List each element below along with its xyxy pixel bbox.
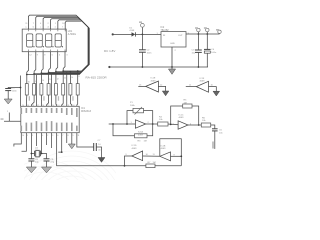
- wire col 5 top: [55, 69, 57, 83]
- svg-text:RA-815 220OR: RA-815 220OR: [86, 76, 108, 80]
- gate IC1C triangle: [178, 121, 188, 129]
- svg-text:11: 11: [67, 105, 69, 107]
- wire common: [66, 72, 68, 107]
- ground under IC1E: [162, 91, 169, 96]
- gate D pin texts: [146, 154, 156, 156]
- capacitor C5 output: [211, 125, 218, 149]
- gate IC1D triangle: [132, 151, 143, 161]
- wire digit pin 3: [41, 52, 43, 71]
- wire XTAL2: [41, 133, 43, 154]
- svg-text:IC1D: IC1D: [132, 145, 137, 147]
- unused gate IC1F pins: [189, 85, 214, 87]
- svg-text:GND: GND: [170, 43, 175, 45]
- ground symbol on rail: [168, 67, 175, 74]
- svg-text:11: 11: [78, 135, 80, 137]
- segment resistor bank: [25, 84, 79, 95]
- wire regulator output rail: [186, 33, 220, 35]
- node bus J3: [41, 72, 43, 74]
- svg-text:4: 4: [42, 135, 43, 137]
- stage pin number texts: [126, 122, 193, 156]
- svg-text:16: 16: [28, 82, 30, 84]
- wire seg bus 4: [49, 19, 89, 73]
- ground under C9: [41, 167, 51, 173]
- VCC wire to IC: [20, 76, 22, 107]
- svg-text:100n: 100n: [12, 90, 18, 92]
- node amp2 in: [170, 124, 172, 126]
- ground under C1: [4, 99, 12, 104]
- svg-text:IC1F: IC1F: [200, 78, 205, 80]
- node bus J1: [26, 74, 28, 76]
- node rail j C3: [198, 66, 200, 68]
- node xtal2: [41, 153, 43, 155]
- node amp1 in: [112, 123, 114, 125]
- wire digit pin 5: [56, 52, 58, 69]
- svg-text:100n: 100n: [147, 52, 153, 54]
- svg-text:9: 9: [79, 76, 80, 78]
- node gate B input: [180, 155, 182, 157]
- capacitor C9 label: [50, 159, 54, 164]
- wire seg bus 2: [34, 16, 89, 74]
- ground rail: [109, 66, 208, 68]
- pin number texts bottom: [22, 135, 79, 137]
- wire seg bus 5: [56, 20, 88, 72]
- wire seg bus 1: [27, 15, 90, 74]
- wire XTAL1 cap branch: [30, 154, 32, 159]
- node input plus terminal: [112, 33, 114, 35]
- svg-text:DC 1.8V: DC 1.8V: [104, 49, 115, 53]
- resistor R6: [201, 123, 210, 127]
- svg-text:10: 10: [71, 77, 73, 79]
- resistor R13: [40, 84, 43, 95]
- node bus J5: [55, 71, 57, 73]
- gate IC1B triangle: [160, 152, 171, 161]
- wire common: [35, 75, 37, 106]
- svg-text:18: 18: [32, 105, 34, 107]
- regulator IC2 78L05: [161, 32, 186, 47]
- wires display bottom pins: [27, 52, 65, 72]
- svg-text:4069: 4069: [138, 134, 144, 136]
- node xtal1: [31, 153, 33, 155]
- wire rcol 7: [70, 95, 71, 106]
- wire pin to cap chain: [77, 133, 94, 147]
- unused gate IC1F: [186, 81, 217, 92]
- resistor R4: [158, 122, 168, 126]
- supply flag Vin: [141, 23, 145, 34]
- unused gate IC1E: [138, 81, 165, 92]
- svg-text:4069: 4069: [179, 117, 185, 119]
- wire seg bus 3: [41, 18, 88, 74]
- resistor R15: [54, 84, 57, 95]
- wire col 6 top: [62, 69, 64, 84]
- svg-text:13: 13: [57, 105, 59, 107]
- node bus J2: [33, 73, 35, 75]
- svg-text:13: 13: [49, 79, 51, 81]
- node minus terminal: [108, 66, 110, 68]
- resistor R11: [25, 84, 28, 95]
- unused gate IC1E label: [151, 78, 157, 83]
- capacitor C1 label: [12, 87, 18, 92]
- display bottom pin numbers: [29, 55, 68, 57]
- diode D1 label: [129, 27, 135, 32]
- svg-text:IC1C: IC1C: [179, 114, 184, 116]
- wire crystal plates: [0, 0, 1, 1]
- potentiometer P1 label: [130, 102, 136, 107]
- wires resistor bank to IC pins: [26, 72, 77, 107]
- ground under IC1F: [213, 91, 220, 96]
- svg-text:9: 9: [73, 135, 74, 137]
- svg-text:15: 15: [35, 81, 37, 83]
- wire col 7 top: [69, 71, 71, 84]
- display pin stubs: [28, 29, 65, 52]
- wire col 1 top: [26, 72, 28, 84]
- resistor R17: [69, 84, 72, 95]
- gate B feedback loop wire: [160, 139, 182, 166]
- node pd junction: [61, 151, 63, 153]
- wire pin stub f: [51, 133, 53, 148]
- crystal Q1 label: [35, 148, 41, 152]
- resistor R18: [76, 84, 79, 95]
- net label out vertical: [212, 142, 214, 149]
- svg-text:14: 14: [52, 105, 54, 107]
- capacitor C7: [94, 143, 102, 158]
- resistor R14: [47, 84, 50, 95]
- wire input to diode: [113, 33, 132, 35]
- wire pin stub h: [66, 133, 68, 143]
- wire signal rail from pin: [57, 133, 125, 166]
- svg-text:4069: 4069: [151, 80, 157, 82]
- IC1 top pin numbers: [22, 105, 75, 107]
- svg-text:1: 1: [27, 135, 28, 137]
- node Vin junction: [142, 34, 144, 36]
- wire gate D output: [125, 156, 132, 166]
- svg-text:16: 16: [42, 105, 44, 107]
- gate IC1D label: [132, 145, 138, 150]
- supply flag +5V b: [206, 28, 209, 34]
- supply flag +5V c: [218, 30, 221, 34]
- svg-text:20: 20: [22, 105, 24, 107]
- ground under C7: [98, 158, 105, 163]
- wire to ground arrow: [71, 133, 73, 144]
- node bus J7: [70, 71, 72, 73]
- wire col 8 top: [77, 71, 79, 84]
- capacitor C4 electrolytic: [204, 34, 211, 67]
- wire amp1 out: [146, 123, 158, 125]
- crystal Q1: [35, 151, 41, 157]
- svg-text:1M: 1M: [144, 140, 147, 142]
- svg-text:7: 7: [62, 135, 63, 137]
- IC1 microcontroller 90S2313: [21, 106, 79, 132]
- ground under C8: [26, 167, 36, 173]
- capacitor C4 label: [211, 49, 217, 54]
- wire digit pin 6: [63, 52, 65, 69]
- wire rail R7 right: [155, 165, 181, 167]
- node rail j gnd: [171, 66, 173, 68]
- node bus J6: [62, 70, 64, 72]
- capacitor C9: [44, 159, 50, 167]
- svg-text:78L05Z: 78L05Z: [161, 29, 170, 32]
- svg-text:10: 10: [73, 105, 75, 107]
- capacitor C1: [5, 88, 20, 100]
- svg-text:d: d: [48, 26, 49, 28]
- wire rcol 5: [55, 95, 58, 106]
- resistor R4 label: [159, 116, 163, 121]
- svg-text:17: 17: [37, 105, 39, 107]
- svg-text:12: 12: [57, 78, 59, 80]
- gate IC1A label: [138, 131, 144, 137]
- IC1 bottom pin wires: [14, 133, 125, 166]
- svg-text:90S2313: 90S2313: [81, 110, 92, 113]
- resistor R16: [62, 84, 65, 95]
- capacitor C3 label: [192, 50, 196, 55]
- svg-text:IC1E: IC1E: [151, 78, 156, 80]
- svg-text:A-564G: A-564G: [68, 33, 76, 36]
- node rail j C2: [142, 66, 144, 68]
- wire pin stub e: [46, 133, 48, 145]
- svg-text:10: 10: [22, 135, 24, 137]
- reset stub wire: [4, 113, 21, 122]
- resistor R5 feedback: [171, 104, 199, 125]
- wire diode to regulator: [135, 33, 161, 35]
- wire R4 to amp2: [168, 123, 178, 126]
- wire col 4 top: [48, 70, 50, 84]
- resistor bank pin texts: [28, 76, 80, 84]
- svg-text:12: 12: [62, 105, 64, 107]
- capacitor C8 label: [35, 159, 39, 164]
- wire gate D to gate B: [143, 155, 160, 157]
- gate IC1B label: [161, 145, 167, 150]
- unused gate IC1F label: [200, 78, 206, 83]
- wire XTAL2 cap branch: [41, 154, 47, 159]
- svg-text:4069: 4069: [132, 148, 138, 150]
- wire digit pin 2: [34, 52, 36, 72]
- ground under IC pin: [68, 144, 75, 149]
- svg-text:2: 2: [47, 135, 48, 137]
- supply flag +5V a: [197, 28, 200, 34]
- wire digit pin 4: [49, 52, 51, 70]
- supply flag texts: [139, 21, 219, 30]
- wire pin tick g: [58, 133, 61, 152]
- svg-text:8: 8: [67, 135, 68, 137]
- unused gate IC1E pins: [139, 84, 163, 86]
- svg-text:4MHz: 4MHz: [35, 150, 41, 152]
- wire XTAL1: [31, 133, 34, 154]
- resistor R6 label: [202, 117, 206, 122]
- watermark pattern: [0, 151, 127, 240]
- resistor R7 on rail: [146, 164, 155, 168]
- display top pin numbers: [25, 23, 65, 28]
- node VCC-C1: [20, 87, 22, 89]
- svg-text:15: 15: [47, 105, 49, 107]
- wire rcol 2: [31, 95, 34, 106]
- wire regulator gnd stem: [171, 47, 173, 67]
- resistor R7 label: [148, 162, 156, 164]
- wire bus from display top pins to segment resistors: [27, 15, 90, 74]
- svg-text:1M: 1M: [184, 102, 187, 104]
- node rail to gate D: [124, 165, 126, 167]
- capacitor C7 label: [98, 140, 102, 152]
- node out j2: [206, 33, 208, 35]
- capacitor C3: [195, 34, 202, 67]
- amp stage 1 input wire: [109, 123, 136, 125]
- node amp2 out: [198, 124, 200, 126]
- resistor R3 feedback bottom: [113, 124, 153, 138]
- svg-text:4069: 4069: [200, 81, 206, 83]
- wire pin stub d: [35, 133, 37, 146]
- svg-text:4148: 4148: [129, 30, 135, 32]
- svg-text:3: 3: [52, 135, 53, 137]
- svg-text:6: 6: [57, 135, 58, 137]
- resistor R12: [33, 84, 36, 95]
- wire pin GND left: [14, 133, 21, 147]
- node out j1: [198, 33, 200, 35]
- wire rail left of R7: [125, 165, 146, 167]
- IC1 label: [81, 107, 92, 113]
- node amp1 out: [152, 123, 154, 125]
- node bus J8: [77, 70, 79, 72]
- wire amp2 out: [188, 124, 201, 126]
- svg-text:11: 11: [64, 78, 66, 80]
- svg-text:19: 19: [27, 105, 29, 107]
- display LD1 digits: [27, 34, 63, 47]
- wire col 3 top: [40, 71, 42, 84]
- capacitor C5 label: [219, 130, 223, 135]
- svg-text:IC1A: IC1A: [138, 131, 143, 134]
- capacitor C8: [28, 159, 34, 167]
- svg-text:IC1B: IC1B: [161, 145, 166, 147]
- wire rcol 6: [62, 95, 64, 106]
- resistor R5 label: [184, 100, 188, 105]
- IC1 pin name smudges bottom: [21, 121, 78, 131]
- display LD1 label: [68, 30, 76, 36]
- resistor R3 label: [138, 140, 147, 142]
- node bus J4: [48, 72, 50, 74]
- svg-text:14: 14: [42, 80, 44, 82]
- wire digit pin 1: [27, 52, 29, 72]
- wire rcol 1: [25, 95, 27, 106]
- svg-text:100n: 100n: [211, 52, 217, 54]
- potentiometer P1 feedback: [127, 107, 153, 124]
- gate IC1C label: [179, 114, 185, 119]
- gate B pin text: [174, 154, 176, 156]
- wire pin PD0: [22, 133, 27, 152]
- svg-text:c: c: [40, 26, 41, 28]
- wire rcol 8: [76, 95, 79, 106]
- regulator IC2 label: [161, 26, 170, 32]
- svg-text:5: 5: [32, 135, 33, 137]
- wire rcol 4: [47, 95, 49, 106]
- capacitor C2 label: [147, 49, 153, 54]
- wire col 2 top: [33, 71, 35, 83]
- wire common: [51, 73, 53, 106]
- node amp1 fb tap: [126, 123, 128, 125]
- wire rcol 3: [40, 95, 42, 106]
- gate IC1A triangle: [135, 120, 145, 128]
- regulator IC2 inner text: [157, 33, 190, 52]
- display LD1: [22, 29, 66, 52]
- capacitor C2: [139, 34, 146, 67]
- wire seg bus 6: [63, 21, 88, 71]
- resistor column verticals: [27, 69, 78, 84]
- IC1 pin name smudges top: [21, 108, 78, 117]
- diode D1: [132, 32, 136, 36]
- resistor bank value smudges: [29, 96, 74, 101]
- svg-text:1M: 1M: [153, 162, 156, 164]
- svg-text:4069: 4069: [161, 148, 167, 150]
- svg-text:OUT: OUT: [178, 35, 183, 37]
